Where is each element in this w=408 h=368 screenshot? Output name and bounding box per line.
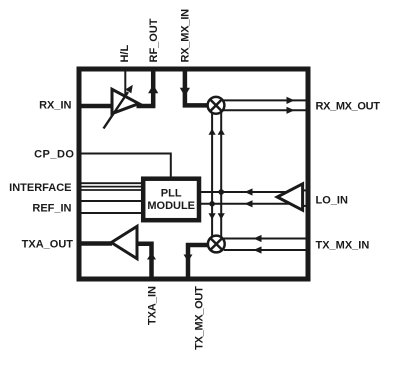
svg-text:PLL: PLL — [161, 188, 182, 200]
wire LO lower horizontal — [201, 200, 302, 207]
junction lower-left — [209, 201, 215, 207]
wire TXA_IN — [137, 244, 156, 279]
svg-text:TXA_IN: TXA_IN — [147, 286, 159, 325]
wire amp output to RF_OUT — [137, 104, 156, 109]
junction upper-right — [218, 189, 224, 195]
pin label CP_DO — [34, 149, 74, 161]
wire TX_MX_IN upper — [224, 235, 308, 242]
pin label TX_MX_OUT bottom — [194, 286, 206, 350]
wire TXA_OUT — [79, 241, 112, 246]
svg-text:REF_IN: REF_IN — [32, 203, 71, 215]
pin label RF_OUT — [148, 18, 160, 62]
pin label TXA_OUT — [22, 239, 74, 251]
pin label RX_MX_IN top — [180, 9, 192, 63]
op-amp U1 RX LNA — [104, 85, 139, 129]
wire REF_IN — [81, 212, 143, 214]
svg-text:RF_OUT: RF_OUT — [148, 18, 160, 62]
wire TX_MX_IN lower — [224, 246, 308, 253]
pin label RX_IN — [39, 100, 71, 112]
mixer TX — [208, 236, 225, 253]
svg-text:RX_MX_IN: RX_MX_IN — [180, 9, 192, 63]
PLL module U4 — [143, 179, 199, 221]
pin label TXA_IN — [147, 286, 159, 325]
svg-text:MODULE: MODULE — [147, 200, 195, 212]
op-amp U3 LO buffer — [277, 184, 302, 210]
wire LO vertical right — [218, 110, 225, 240]
wire H/L stub — [124, 69, 126, 95]
wire INTERFACE bit3 — [81, 189, 143, 191]
svg-text:INTERFACE: INTERFACE — [9, 182, 71, 194]
pin label RX_MX_OUT — [316, 101, 381, 113]
pin label LO_IN — [316, 195, 348, 207]
wire LO vertical left — [209, 110, 216, 240]
wire RX_IN — [79, 104, 112, 109]
wire interface bit4 — [81, 200, 143, 202]
chip outline box — [79, 69, 308, 279]
wire LO_IN stub upper — [300, 189, 309, 191]
wire LO upper horizontal — [201, 188, 302, 195]
svg-text:CP_DO: CP_DO — [34, 149, 74, 161]
wire RX_MX_OUT upper — [224, 97, 309, 104]
wire RX_MX_IN — [180, 69, 208, 105]
svg-text:TXA_OUT: TXA_OUT — [22, 239, 74, 251]
pin label REF_IN — [32, 203, 71, 215]
wire CP_DO — [81, 154, 171, 178]
svg-text:H/L: H/L — [119, 45, 131, 63]
svg-text:RX_MX_OUT: RX_MX_OUT — [316, 101, 381, 113]
svg-text:RX_IN: RX_IN — [39, 100, 71, 112]
pin label INTERFACE — [9, 182, 71, 194]
mixer RX — [208, 97, 225, 114]
wire RF_OUT — [148, 69, 158, 106]
svg-text:TX_MX_IN: TX_MX_IN — [316, 240, 370, 252]
svg-text:LO_IN: LO_IN — [316, 195, 348, 207]
pin label TX_MX_IN — [316, 240, 370, 252]
pin label H/L — [119, 45, 131, 63]
wire RX_MX_OUT lower — [224, 107, 309, 114]
wire TX_MX_OUT — [184, 245, 209, 279]
wire INTERFACE bit2 — [81, 186, 143, 188]
wire INTERFACE bit1 — [81, 182, 143, 184]
wire LO_IN stub lower — [300, 205, 309, 207]
svg-text:TX_MX_OUT: TX_MX_OUT — [194, 286, 206, 350]
op-amp U2 TXA driver — [111, 226, 137, 258]
